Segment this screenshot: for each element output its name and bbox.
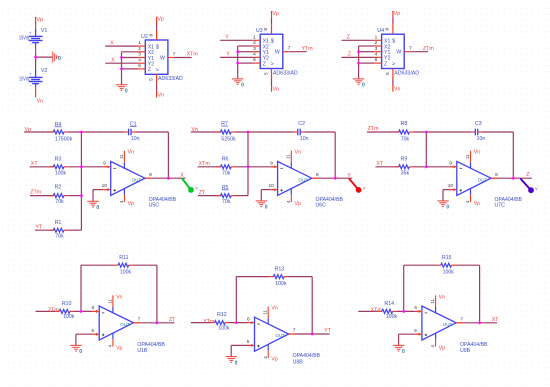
svg-text:Vn: Vn: [394, 87, 400, 93]
svg-text:U9B: U9B: [460, 348, 471, 354]
svg-text:OUT: OUT: [478, 177, 488, 182]
svg-text:100k: 100k: [55, 171, 67, 177]
svg-text:ZTm: ZTm: [30, 190, 41, 196]
svg-text:>: >: [392, 62, 395, 68]
svg-text:Vp: Vp: [128, 201, 134, 207]
svg-text:Y: Y: [347, 173, 351, 179]
svg-text:100k: 100k: [275, 281, 287, 287]
svg-text:OUT: OUT: [443, 322, 453, 327]
svg-text:7: 7: [173, 51, 176, 57]
svg-text:17500k: 17500k: [55, 136, 73, 142]
svg-text:OPA404/BB: OPA404/BB: [137, 342, 165, 348]
svg-text:W: W: [160, 55, 165, 61]
svg-text:5: 5: [149, 78, 155, 81]
svg-text:V: V: [195, 187, 198, 191]
svg-text:10: 10: [448, 183, 454, 189]
svg-text:0: 0: [446, 205, 449, 211]
svg-text:W: W: [275, 50, 280, 56]
svg-text:9: 9: [449, 161, 452, 167]
svg-text:7: 7: [138, 317, 141, 323]
svg-text:R10: R10: [62, 301, 72, 307]
svg-text:6: 6: [138, 63, 141, 69]
svg-text:6: 6: [253, 57, 256, 63]
svg-text:6: 6: [92, 305, 95, 311]
svg-text:ZT: ZT: [169, 317, 176, 323]
svg-text:11: 11: [286, 154, 291, 159]
svg-text:OPA404/BB: OPA404/BB: [293, 353, 321, 359]
svg-text:70k: 70k: [401, 136, 410, 142]
svg-text:OPA404/BB: OPA404/BB: [460, 342, 488, 348]
svg-text:100k: 100k: [386, 314, 398, 320]
svg-text:70k: 70k: [55, 199, 64, 205]
svg-text:OUT: OUT: [120, 322, 130, 327]
svg-text:70k: 70k: [222, 199, 231, 205]
svg-text:100k: 100k: [63, 314, 75, 320]
svg-text:10n: 10n: [131, 136, 140, 142]
svg-text:0: 0: [125, 88, 128, 94]
svg-text:Vn: Vn: [158, 92, 164, 98]
svg-text:Y: Y: [226, 52, 230, 58]
svg-text:4: 4: [375, 52, 378, 58]
svg-text:X: X: [180, 172, 184, 178]
svg-text:OUT: OUT: [275, 333, 285, 338]
svg-text:Z: Z: [384, 61, 387, 67]
svg-text:100k: 100k: [218, 325, 230, 331]
svg-text:V: V: [535, 187, 538, 191]
svg-text:4: 4: [138, 57, 141, 63]
svg-text:OUT: OUT: [132, 177, 142, 182]
svg-text:9: 9: [103, 161, 106, 167]
svg-text:XTm: XTm: [199, 161, 211, 167]
svg-text:Vp: Vp: [158, 17, 164, 23]
svg-text:R6: R6: [222, 157, 229, 163]
svg-text:Vp: Vp: [394, 11, 400, 17]
svg-text:5: 5: [91, 328, 94, 334]
svg-text:Vn: Vn: [439, 294, 445, 300]
svg-text:3: 3: [375, 46, 378, 52]
svg-text:10: 10: [102, 183, 108, 189]
svg-text:5: 5: [385, 72, 391, 75]
svg-text:XT: XT: [492, 317, 500, 323]
svg-text:YTm: YTm: [203, 319, 215, 325]
svg-text:7: 7: [293, 328, 296, 334]
svg-text:ZTm: ZTm: [368, 126, 379, 132]
svg-text:1: 1: [138, 40, 141, 46]
svg-text:15Vdc: 15Vdc: [19, 35, 31, 41]
svg-text:ZTm: ZTm: [423, 46, 434, 52]
svg-text:2: 2: [138, 46, 141, 52]
svg-text:Vp: Vp: [37, 17, 43, 23]
svg-text:U3: U3: [256, 28, 263, 34]
svg-text:6: 6: [414, 305, 417, 311]
svg-text:AD633/AD: AD633/AD: [158, 76, 183, 82]
svg-text:U7C: U7C: [495, 203, 506, 209]
svg-text:8: 8: [316, 172, 319, 178]
svg-text:10: 10: [269, 183, 275, 189]
svg-text:11: 11: [119, 154, 124, 159]
svg-text:11: 11: [107, 298, 112, 303]
svg-text:OUT: OUT: [299, 177, 309, 182]
svg-text:C2: C2: [298, 121, 305, 127]
svg-text:1: 1: [375, 34, 378, 40]
svg-text:XTm: XTm: [187, 52, 199, 58]
svg-text:8: 8: [148, 33, 154, 36]
svg-text:7: 7: [288, 46, 291, 52]
svg-text:70k: 70k: [222, 171, 231, 177]
svg-text:Vp: Vp: [116, 346, 122, 352]
svg-text:U8B: U8B: [293, 359, 304, 365]
svg-text:Vn: Vn: [271, 306, 277, 312]
svg-text:>: >: [271, 62, 274, 68]
svg-text:0: 0: [235, 360, 238, 366]
svg-text:11: 11: [465, 154, 470, 159]
svg-text:Z: Z: [148, 67, 151, 73]
svg-text:5: 5: [247, 339, 250, 345]
svg-text:Vp: Vp: [271, 357, 277, 363]
svg-text:XTm: XTm: [371, 308, 383, 314]
svg-text:Vn: Vn: [474, 150, 480, 156]
svg-text:7: 7: [460, 317, 463, 323]
svg-text:Z: Z: [263, 61, 266, 67]
svg-text:W: W: [396, 50, 401, 56]
svg-text:2: 2: [253, 40, 256, 46]
svg-text:6: 6: [375, 57, 378, 63]
svg-text:35k: 35k: [401, 171, 410, 177]
svg-text:3: 3: [138, 52, 141, 58]
svg-text:Vn: Vn: [295, 150, 301, 156]
svg-text:V2: V2: [41, 68, 48, 74]
svg-text:Vp: Vp: [272, 11, 278, 17]
svg-text:R2: R2: [55, 185, 62, 191]
svg-text:U5C: U5C: [149, 203, 160, 209]
svg-text:R3: R3: [55, 157, 62, 163]
svg-text:5250k: 5250k: [221, 136, 236, 142]
svg-text:R1: R1: [55, 220, 62, 226]
svg-text:9: 9: [270, 161, 273, 167]
svg-text:0: 0: [58, 56, 61, 62]
svg-text:X: X: [110, 40, 114, 46]
svg-text:Vp: Vp: [474, 201, 480, 207]
svg-text:R9: R9: [401, 157, 408, 163]
svg-text:Y: Y: [225, 35, 229, 41]
svg-text:C3: C3: [475, 121, 482, 127]
svg-text:AD633/AD: AD633/AD: [394, 70, 419, 76]
svg-text:V1: V1: [41, 28, 48, 34]
svg-text:5: 5: [264, 72, 270, 75]
svg-text:0: 0: [402, 349, 405, 355]
svg-text:0: 0: [79, 349, 82, 355]
svg-text:U6C: U6C: [316, 203, 327, 209]
svg-text:8: 8: [495, 172, 498, 178]
svg-text:15Vdc: 15Vdc: [19, 76, 31, 82]
svg-text:U4: U4: [377, 28, 384, 34]
svg-text:0: 0: [362, 83, 365, 89]
svg-text:$: $: [156, 45, 159, 51]
svg-text:R12: R12: [217, 312, 227, 318]
svg-text:3: 3: [253, 46, 256, 52]
svg-text:R14: R14: [384, 301, 394, 307]
svg-text:0: 0: [265, 205, 268, 211]
svg-text:8: 8: [263, 28, 269, 31]
svg-text:Vn: Vn: [273, 87, 279, 93]
svg-text:5: 5: [414, 328, 417, 334]
svg-text:$: $: [271, 39, 274, 45]
svg-text:0: 0: [96, 205, 99, 211]
svg-text:100k: 100k: [120, 270, 132, 276]
svg-text:10n: 10n: [300, 136, 309, 142]
svg-text:6: 6: [247, 316, 250, 322]
svg-text:4: 4: [253, 52, 256, 58]
svg-text:Vn: Vn: [37, 98, 43, 104]
svg-text:XT: XT: [376, 161, 384, 167]
svg-text:Vp: Vp: [439, 346, 445, 352]
svg-text:Vp: Vp: [295, 201, 301, 207]
svg-text:YT: YT: [324, 328, 332, 334]
svg-text:2: 2: [375, 40, 378, 46]
svg-text:X: X: [111, 58, 115, 64]
svg-text:$: $: [392, 39, 395, 45]
svg-text:8: 8: [149, 172, 152, 178]
svg-text:100k: 100k: [443, 270, 455, 276]
svg-text:7: 7: [409, 46, 412, 52]
svg-text:10n: 10n: [477, 136, 486, 142]
svg-text:11: 11: [430, 298, 435, 303]
svg-text:70k: 70k: [55, 234, 64, 240]
svg-text:YTm: YTm: [302, 46, 314, 52]
svg-text:R11: R11: [119, 255, 128, 261]
svg-text:Vn: Vn: [128, 150, 134, 156]
svg-text:R15: R15: [442, 255, 452, 261]
svg-text:ZTm: ZTm: [48, 308, 59, 314]
svg-text:>: >: [156, 67, 159, 73]
svg-text:1: 1: [253, 34, 256, 40]
svg-text:U1B: U1B: [137, 348, 148, 354]
svg-text:AD633/AD: AD633/AD: [273, 70, 298, 76]
svg-text:0: 0: [241, 83, 244, 89]
svg-text:Vn: Vn: [116, 294, 122, 300]
svg-text:U2: U2: [141, 34, 148, 40]
svg-text:11: 11: [263, 310, 268, 315]
svg-text:R13: R13: [275, 266, 285, 272]
svg-text:8: 8: [385, 28, 391, 31]
svg-text:R8: R8: [401, 121, 408, 127]
